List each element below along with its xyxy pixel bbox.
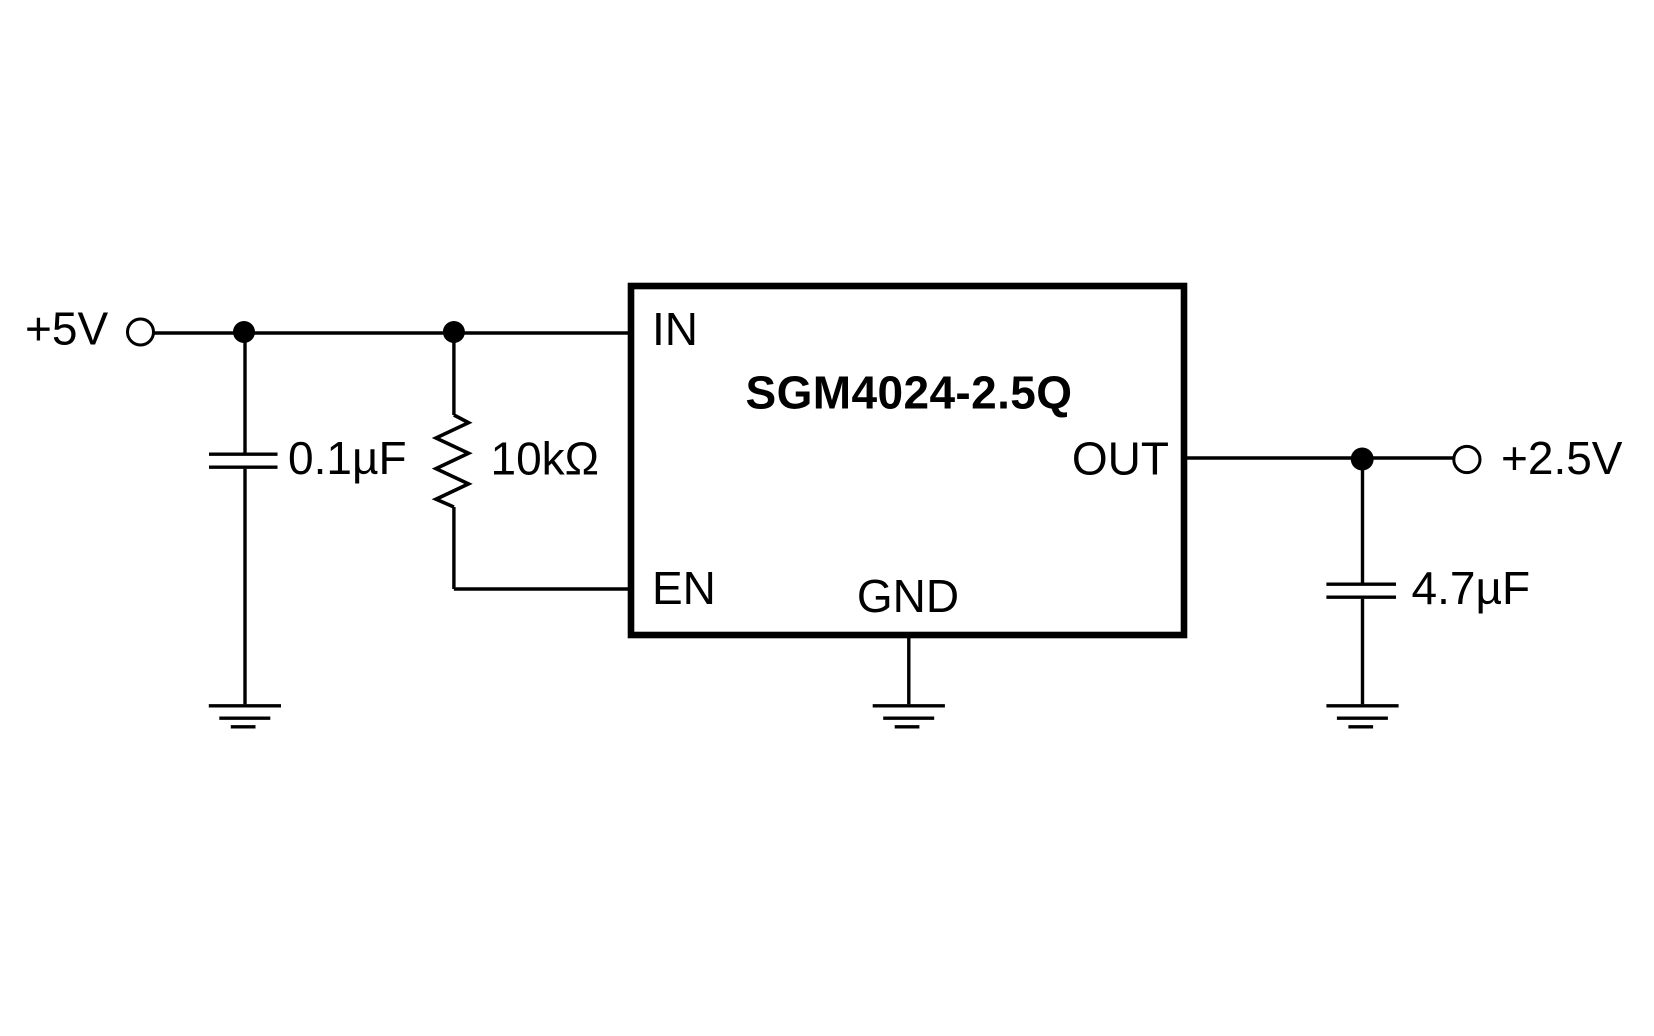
svg-text:10kΩ: 10kΩ [491,433,600,485]
svg-text:GND: GND [857,570,959,622]
svg-text:EN: EN [652,562,716,614]
svg-text:+2.5V: +2.5V [1501,432,1623,484]
svg-text:0.1µF: 0.1µF [288,432,407,484]
svg-text:OUT: OUT [1072,433,1169,485]
svg-text:SGM4024-2.5Q: SGM4024-2.5Q [746,367,1073,419]
svg-text:IN: IN [652,303,698,355]
svg-text:4.7µF: 4.7µF [1412,562,1531,614]
svg-text:+5V: +5V [25,303,108,355]
